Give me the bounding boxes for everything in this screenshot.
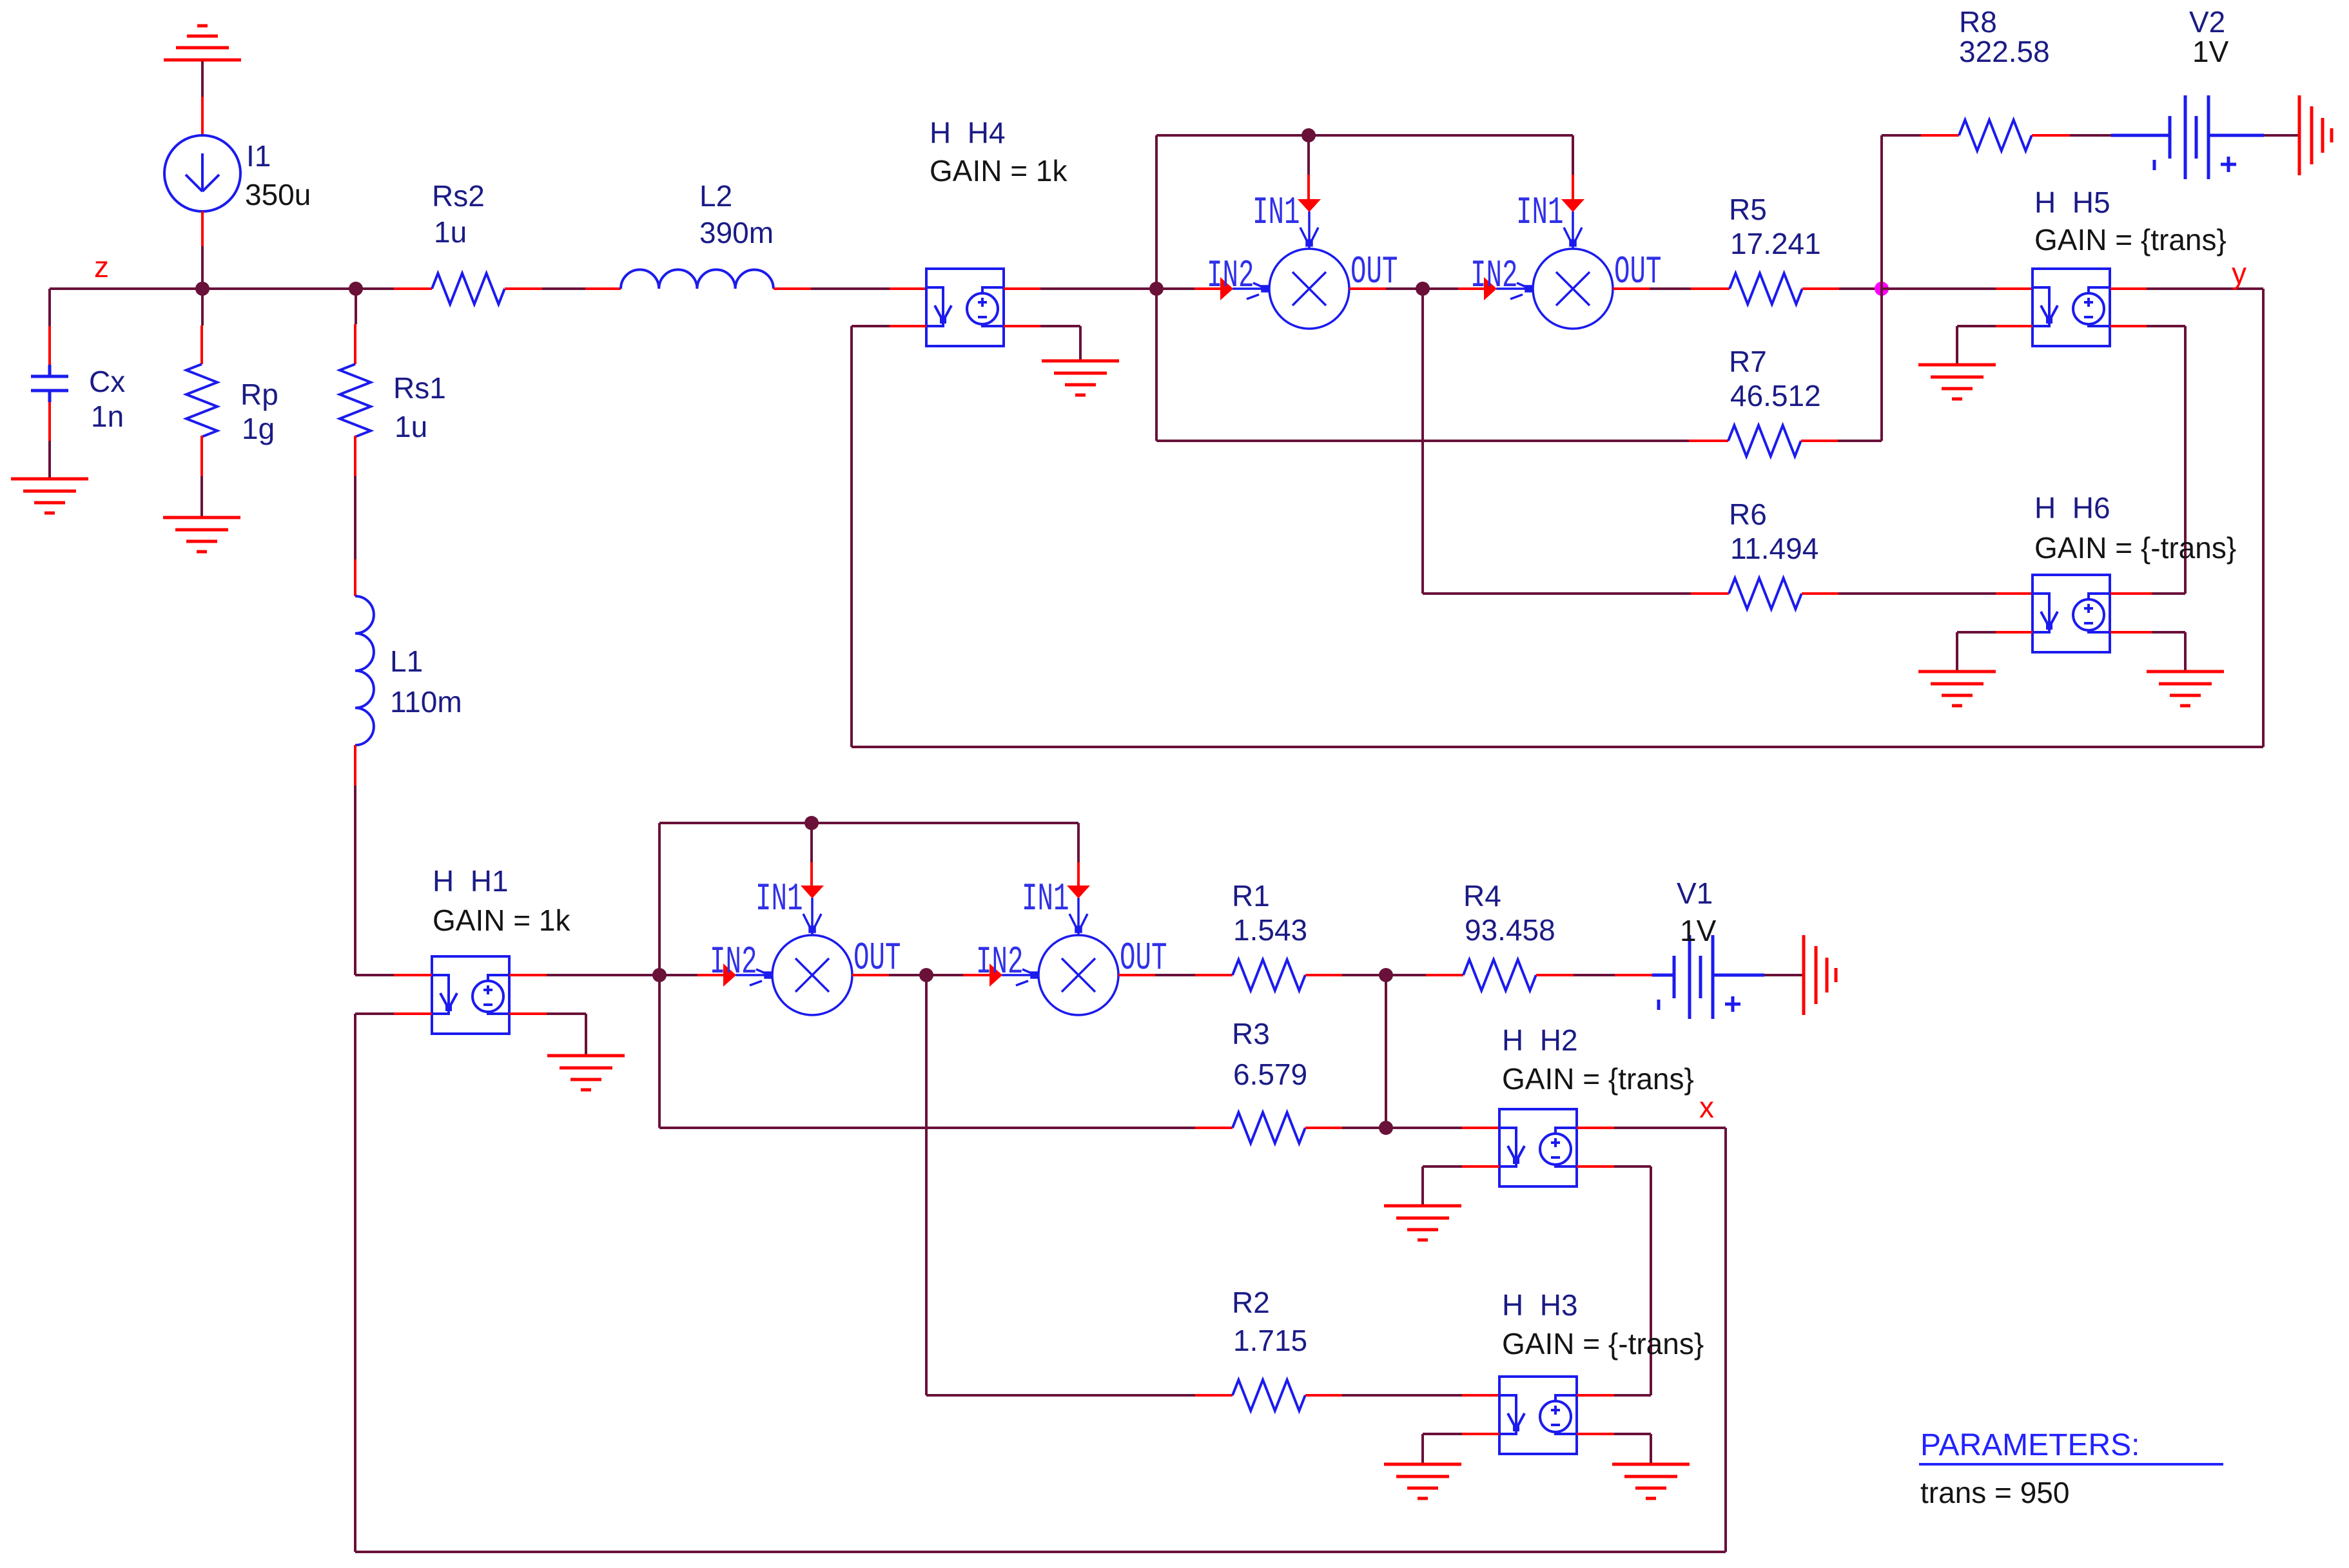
wire corner to R6 — [1423, 592, 1691, 595]
svg-text:R6: R6 — [1729, 498, 1767, 531]
svg-text:1g: 1g — [242, 412, 275, 445]
wire H3 br corner — [1614, 1433, 1651, 1435]
svg-text:1V: 1V — [1680, 914, 1717, 947]
ground (top, above I1, inverted) — [164, 26, 241, 60]
svg-text:390m: 390m — [699, 216, 774, 249]
wire R8 to V2 — [2070, 134, 2111, 137]
svg-text:IN1: IN1 — [755, 878, 803, 922]
wire z to Rp — [201, 289, 204, 325]
wire H6 bl corner — [1957, 631, 1996, 634]
pin mult1 IN1 stub — [1307, 175, 1310, 200]
wire H2 right to x corner — [1614, 1127, 1726, 1129]
wire down to ground — [1421, 1166, 1424, 1206]
resistor Rs1 — [340, 364, 371, 437]
svg-text:GAIN = {-trans}: GAIN = {-trans} — [2034, 531, 2236, 565]
wire Rs1 to L1 — [354, 476, 356, 559]
wire H5 br corner — [2147, 325, 2185, 327]
wire node to mult1 IN2 — [1156, 287, 1194, 290]
pin mult3 OUT stub — [852, 974, 889, 976]
svg-text:z: z — [94, 250, 109, 284]
wire H2 out- down to H3 out+ — [1650, 1166, 1652, 1395]
pin Rs1 bottom stub — [354, 436, 356, 476]
wire junction to mult4 IN2 — [926, 974, 963, 976]
pin R6 left stub — [1691, 592, 1729, 595]
svg-text:H H2: H H2 — [1502, 1023, 1578, 1057]
pin R3 right stub — [1305, 1127, 1342, 1129]
pin L1 bottom stub — [354, 745, 356, 786]
wire node up to IN1 rail — [1155, 135, 1158, 289]
multiplier MULT1 IN2 arrow — [1220, 277, 1233, 300]
wire down to ground — [585, 1014, 587, 1056]
pin mult2 IN2 stub — [1458, 287, 1485, 290]
pin R4 left stub — [1426, 974, 1463, 976]
junction R3/H2 node — [1379, 1121, 1393, 1135]
junction H4 output node — [1149, 282, 1164, 296]
multiplier MULT2 IN2 arrow — [1484, 277, 1497, 300]
pin R1 right stub — [1305, 974, 1342, 976]
pin H4 bottom-right stub — [1004, 325, 1040, 327]
svg-text:H H5: H H5 — [2034, 186, 2110, 219]
ground (below Rp) — [163, 518, 240, 552]
wire node vertical rail/R3 — [658, 823, 661, 1128]
wire H6 right to vertical — [2152, 592, 2185, 595]
wire R2 to H3 — [1342, 1394, 1462, 1397]
junction node z at I1/Rp — [195, 282, 210, 296]
wire down to ground — [2184, 632, 2187, 672]
wire V2 to ground — [2264, 134, 2299, 137]
pin H5 bottom-left stub — [1996, 325, 2032, 327]
pin mult3 IN2 stub — [697, 974, 724, 976]
pin H1 left stub — [394, 974, 432, 976]
svg-text:GAIN = {trans}: GAIN = {trans} — [1502, 1062, 1694, 1096]
pin mult4 OUT stub — [1118, 974, 1155, 976]
svg-text:R8: R8 — [1959, 5, 1997, 39]
resistor R8 — [1959, 120, 2032, 151]
svg-text:H H1: H H1 — [433, 864, 509, 898]
multiplier MULT2 — [1496, 211, 1613, 329]
wire x-node vertical — [1724, 1128, 1727, 1552]
wire junction to mult2 IN2 — [1423, 287, 1458, 290]
wire H2 br corner — [1614, 1165, 1651, 1168]
wire Rp to ground — [200, 476, 203, 518]
inductor L2 — [621, 269, 774, 289]
svg-text:R4: R4 — [1463, 879, 1501, 913]
pin H5 bottom-right stub — [2110, 325, 2147, 327]
svg-text:1n: 1n — [91, 400, 124, 433]
ground (right of V2, rotated) — [2299, 95, 2332, 175]
pin Cx bottom stub — [48, 402, 51, 441]
wire z to Cx — [48, 289, 51, 326]
junction lower rail to mult3 — [804, 816, 819, 830]
resistor Rs2 — [432, 273, 505, 304]
pin H5 left stub — [1996, 287, 2032, 290]
svg-text:IN2: IN2 — [710, 941, 757, 985]
junction IN1 rail to mult1 — [1301, 128, 1316, 142]
svg-text:GAIN = 1k: GAIN = 1k — [433, 904, 570, 937]
voltage source V2 battery — [2111, 95, 2264, 179]
wire rail drop to mult3 IN1 — [810, 823, 813, 862]
wire down to ground — [1421, 1434, 1424, 1464]
multiplier MULT4 IN2 arrow — [989, 963, 1002, 987]
pin H2 right stub — [1577, 1127, 1614, 1129]
wire bottom long horizontal — [355, 1551, 1726, 1553]
wire V1 to ground — [1764, 974, 1804, 976]
svg-text:R7: R7 — [1729, 345, 1767, 378]
pin R2 right stub — [1305, 1394, 1342, 1397]
capacitor Cx — [31, 365, 68, 402]
multiplier MULT1 IN1 arrow — [1298, 199, 1321, 212]
svg-text:V1: V1 — [1677, 876, 1713, 910]
wire mult1 to junction — [1386, 287, 1423, 290]
wire ground to I1 — [201, 61, 204, 97]
pin H6 bottom-right stub — [2110, 631, 2152, 634]
pin H2 bottom-left stub — [1462, 1165, 1499, 1168]
pin H4 bottom-left stub — [890, 325, 926, 327]
svg-text:1u: 1u — [395, 410, 427, 443]
pin L2 left stub — [585, 287, 621, 290]
ground (below H1 right) — [547, 1056, 625, 1090]
pin mult4 IN2 stub — [963, 974, 990, 976]
wire H1 to junction — [547, 974, 659, 976]
inductor L1 — [355, 596, 374, 745]
pin Rp bottom stub — [200, 436, 203, 476]
junction H1 output node — [652, 968, 667, 982]
wire R3 to junction — [1342, 1127, 1386, 1129]
svg-text:322.58: 322.58 — [1959, 35, 2050, 68]
pin mult1 OUT stub — [1349, 287, 1386, 290]
svg-text:1.715: 1.715 — [1233, 1324, 1307, 1357]
pin H3 right stub — [1577, 1394, 1614, 1397]
resistor R7 — [1728, 425, 1801, 456]
wire corner to H1 left pin — [355, 974, 394, 976]
wire R6 to H6 — [1838, 592, 1996, 595]
svg-text:350u: 350u — [245, 178, 311, 211]
wire Cx to ground — [48, 441, 51, 479]
wire H5 bl corner — [1957, 325, 1996, 327]
ground (below H5 left) — [1918, 365, 1996, 399]
pin R6 right stub — [1802, 592, 1838, 595]
wire H4 to node — [1040, 287, 1156, 290]
wire H3 bl corner — [1423, 1433, 1462, 1435]
svg-text:x: x — [1699, 1090, 1714, 1124]
pin R2 left stub — [1195, 1394, 1233, 1397]
pin R3 left stub — [1195, 1127, 1233, 1129]
wire sense return right vertical — [2262, 289, 2265, 747]
wire node to mult3 IN2 — [659, 974, 697, 976]
resistor R1 — [1233, 960, 1305, 991]
pin R5 left stub — [1691, 287, 1730, 290]
wire down to ground — [1650, 1434, 1652, 1464]
svg-text:R1: R1 — [1232, 879, 1270, 913]
svg-text:GAIN = {-trans}: GAIN = {-trans} — [1502, 1327, 1704, 1360]
current source I1 circle — [164, 135, 240, 211]
pin mult1 IN2 stub — [1194, 287, 1221, 290]
wire mult3 to junction — [889, 974, 926, 976]
svg-text:H H3: H H3 — [1502, 1288, 1578, 1322]
wire rail drop to mult4 IN1 — [1077, 823, 1080, 862]
wire junction to H2 — [1386, 1127, 1462, 1129]
H-source H6 block — [2032, 575, 2110, 652]
H-source H1 block — [432, 956, 509, 1034]
wire down to ground — [1956, 326, 1958, 365]
junction node z at Rs1 — [349, 282, 363, 296]
wire H4 bottom-right to ground — [1040, 325, 1080, 327]
ground (below H3 left) — [1384, 1464, 1461, 1498]
pin H4 left stub — [890, 287, 926, 290]
wire R7 to right vertical — [1838, 440, 1882, 442]
ground (below H4) — [1042, 361, 1119, 395]
pin V1 left stub — [1615, 974, 1652, 976]
svg-text:IN1: IN1 — [1022, 878, 1069, 922]
pin mult2 IN1 stub — [1572, 175, 1574, 200]
wire H5 out- down to H6 out+ — [2184, 326, 2187, 594]
wire corner to R8 — [1882, 134, 1921, 137]
wire R1 to junction — [1342, 974, 1386, 976]
svg-text:Rs2: Rs2 — [432, 179, 485, 213]
svg-text:GAIN = {trans}: GAIN = {trans} — [2034, 223, 2227, 256]
wire rail drop to mult2 IN1 — [1572, 135, 1574, 175]
pin Rs2 left stub — [394, 287, 432, 290]
pin H2 left stub — [1462, 1127, 1499, 1129]
pin H3 bottom-right stub — [1577, 1433, 1614, 1435]
svg-text:Cx: Cx — [89, 365, 125, 398]
svg-text:H H6: H H6 — [2034, 491, 2110, 525]
svg-text:IN2: IN2 — [1470, 255, 1517, 298]
pin Rs1 top stub — [354, 324, 356, 364]
pin H6 right stub — [2110, 592, 2152, 595]
wire sense return bottom horizontal — [852, 746, 2263, 748]
wire Rs2 to L2 — [542, 287, 585, 290]
wire mult1-out node down to R6 — [1421, 289, 1424, 594]
pin I1 bottom stub — [201, 211, 204, 246]
wire rail drop to mult1 IN1 — [1307, 135, 1310, 175]
wire H2 bl corner — [1423, 1165, 1462, 1168]
wire H1 bl corner — [355, 1012, 394, 1015]
svg-text:Rs1: Rs1 — [393, 371, 446, 405]
svg-text:V2: V2 — [2189, 5, 2225, 39]
H-source H2 block — [1499, 1109, 1577, 1186]
svg-text:IN2: IN2 — [1207, 255, 1254, 298]
ground (below Cx) — [11, 479, 88, 513]
wire node down-run to R7 — [1156, 440, 1689, 442]
pin H1 bottom-right stub — [509, 1012, 547, 1015]
pin R4 right stub — [1536, 974, 1574, 976]
wire L1 down to H1 level — [354, 786, 356, 975]
resistor Rp — [186, 364, 217, 437]
pin H3 left stub — [1462, 1394, 1499, 1397]
svg-text:R3: R3 — [1232, 1017, 1270, 1050]
pin R7 left stub — [1689, 440, 1728, 442]
resistor R6 — [1729, 578, 1802, 609]
svg-text:11.494: 11.494 — [1730, 532, 1818, 565]
wire corner to R2 — [926, 1394, 1195, 1397]
pin R8 right stub — [2032, 134, 2070, 137]
wire R5 to magenta node — [1839, 287, 1882, 290]
wire mult3-out node down to R2 — [925, 975, 928, 1395]
wire mult2 to R5 — [1650, 287, 1691, 290]
resistor R2 — [1233, 1380, 1305, 1411]
pin L1 top stub — [354, 559, 356, 596]
pin H2 bottom-right stub — [1577, 1165, 1614, 1168]
wire IN1 top rail — [1156, 134, 1573, 137]
voltage source V1 battery — [1652, 935, 1764, 1019]
junction R1/R4 node — [1379, 968, 1393, 982]
multiplier MULT3 IN1 arrow — [801, 886, 824, 898]
ground (below H2 left) — [1384, 1206, 1461, 1240]
svg-text:1u: 1u — [434, 215, 467, 249]
multiplier MULT3 — [736, 898, 852, 1015]
pin I1 top stub — [201, 97, 204, 135]
wire net z horizontal run — [50, 287, 394, 290]
resistor R5 — [1730, 273, 1802, 304]
svg-text:R2: R2 — [1232, 1286, 1270, 1319]
svg-text:IN2: IN2 — [976, 941, 1023, 985]
H-source H4 block — [926, 269, 1004, 346]
ground (below H6 left) — [1918, 672, 1996, 706]
wire R4 to V1 — [1574, 974, 1615, 976]
pin H1 right stub — [509, 974, 547, 976]
pin Rs2 right stub — [505, 287, 542, 290]
pin R7 right stub — [1801, 440, 1838, 442]
junction mult1 out node — [1416, 282, 1430, 296]
svg-text:H H4: H H4 — [930, 116, 1006, 150]
pin H1 bottom-left stub — [394, 1012, 432, 1015]
pin H5 right stub — [2110, 287, 2147, 290]
junction mult3 out node — [919, 968, 933, 982]
wire z to Rs1 — [355, 289, 357, 324]
svg-text:93.458: 93.458 — [1465, 913, 1555, 947]
pin H6 bottom-left stub — [1996, 631, 2032, 634]
ground (right of V1, rotated) — [1804, 935, 1836, 1015]
pin R8 left stub — [1921, 134, 1959, 137]
pin H6 left stub — [1996, 592, 2032, 595]
svg-text:Rp: Rp — [240, 378, 278, 411]
multiplier MULT4 — [1002, 898, 1118, 1015]
svg-text:46.512: 46.512 — [1730, 379, 1821, 412]
svg-text:6.579: 6.579 — [1233, 1058, 1307, 1091]
wire H1 br corner — [547, 1012, 586, 1015]
wire H1 sense return down — [354, 1014, 356, 1552]
svg-text:L1: L1 — [390, 644, 423, 678]
wire H3 right to vertical — [1614, 1394, 1651, 1397]
wire down to ground — [1079, 326, 1082, 361]
wire IN1 lower rail — [659, 822, 1078, 824]
wire junction to R4 — [1386, 974, 1426, 976]
svg-text:17.241: 17.241 — [1730, 227, 1821, 260]
pin mult2 OUT stub — [1613, 287, 1650, 290]
pin H4 right stub — [1004, 287, 1040, 290]
wire node to H5 — [1882, 287, 1996, 290]
wire mult4 to R1 — [1155, 974, 1195, 976]
ground (below H6 right) — [2147, 672, 2224, 706]
junction node (magenta) R5/R8/R7 — [1875, 282, 1889, 296]
wire node down to R7 run — [1155, 289, 1158, 441]
multiplier MULT3 IN2 arrow — [723, 963, 736, 987]
pin R5 right stub — [1802, 287, 1839, 290]
multiplier MULT1 — [1233, 211, 1349, 329]
pin Rp top stub — [200, 325, 203, 364]
wire node down-run to R3 — [659, 1127, 1195, 1129]
svg-text:L2: L2 — [699, 179, 732, 213]
wire H5 right to corner (node y) — [2147, 287, 2263, 290]
svg-text:IN1: IN1 — [1252, 191, 1300, 235]
svg-text:I1: I1 — [246, 139, 271, 173]
resistor R4 — [1463, 960, 1536, 991]
H-source H5 block — [2032, 269, 2110, 346]
wire L2 to H4 — [811, 287, 890, 290]
wire down to ground — [1956, 632, 1958, 672]
svg-text:trans = 950: trans = 950 — [1920, 1476, 2069, 1509]
svg-text:PARAMETERS:: PARAMETERS: — [1920, 1428, 2140, 1462]
wire H4 sense return corner — [852, 325, 890, 327]
wire sense return left vertical — [850, 326, 853, 747]
wire vertical R8/R5/R7 node — [1880, 135, 1883, 441]
wire junction down to R3 node — [1385, 975, 1387, 1128]
pin H3 bottom-left stub — [1462, 1433, 1499, 1435]
pin L2 right stub — [774, 287, 811, 290]
wire I1 to node z — [201, 246, 204, 289]
svg-text:GAIN = 1k: GAIN = 1k — [930, 154, 1067, 188]
svg-text:110m: 110m — [390, 685, 462, 719]
pin mult3 IN1 stub — [810, 862, 813, 888]
svg-text:R5: R5 — [1729, 193, 1767, 226]
resistor R3 — [1233, 1112, 1305, 1143]
svg-text:IN1: IN1 — [1516, 191, 1563, 235]
multiplier MULT2 IN1 arrow — [1561, 199, 1584, 212]
pin R1 left stub — [1195, 974, 1233, 976]
svg-text:1.543: 1.543 — [1233, 913, 1307, 947]
svg-text:1V: 1V — [2192, 35, 2229, 68]
pin mult4 IN1 stub — [1077, 862, 1080, 888]
H-source H3 block — [1499, 1377, 1577, 1454]
pin Cx top stub — [48, 326, 51, 365]
multiplier MULT4 IN1 arrow — [1067, 886, 1090, 898]
text PARAMETERS underline — [1919, 1463, 2223, 1466]
wire H6 br corner — [2152, 631, 2185, 634]
svg-text:y: y — [2232, 256, 2247, 290]
current source I1 arrow — [186, 153, 219, 191]
ground (below H3 right) — [1612, 1464, 1690, 1498]
